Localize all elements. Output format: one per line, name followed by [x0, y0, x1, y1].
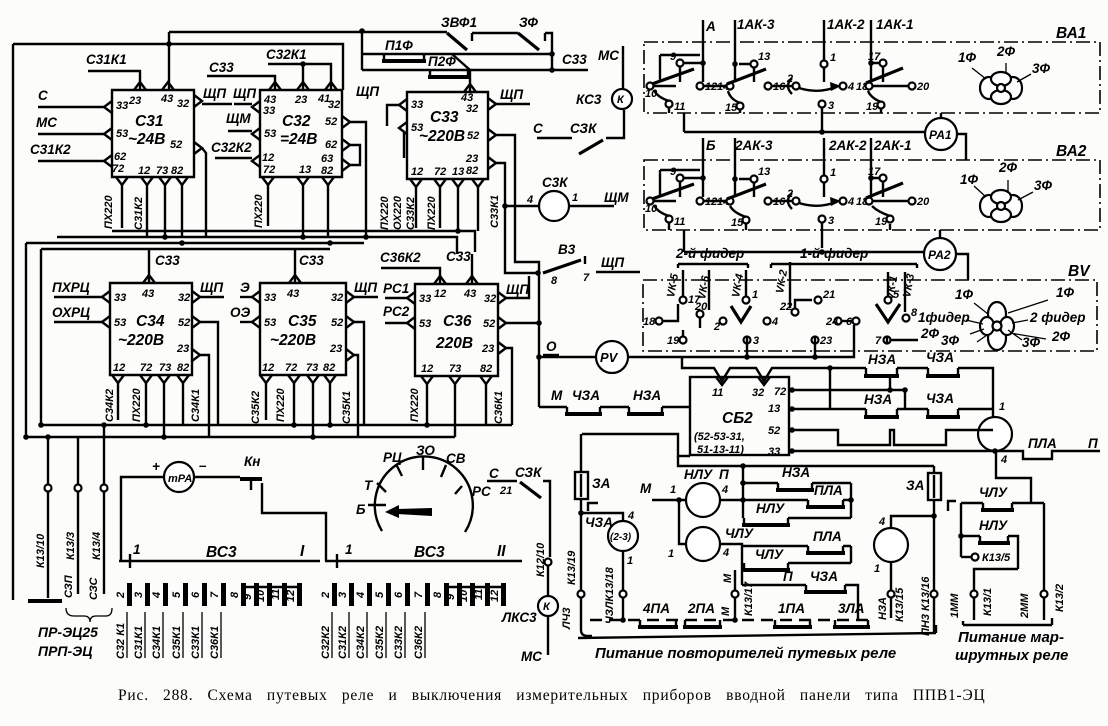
wire x539 down	[538, 273, 540, 359]
svg-text:23: 23	[128, 95, 141, 107]
svg-text:10: 10	[255, 589, 267, 602]
wires BV	[663, 304, 678, 321]
svg-text:8: 8	[551, 275, 558, 287]
svg-text:ПХ220: ПХ220	[131, 388, 143, 422]
svg-text:32: 32	[466, 103, 478, 115]
terminal 3	[819, 101, 826, 108]
svg-text:5: 5	[374, 591, 386, 598]
svg-text:ЩМ: ЩМ	[604, 190, 629, 205]
svg-text:2Ф: 2Ф	[1051, 329, 1071, 344]
svg-text:2Ф: 2Ф	[996, 44, 1016, 59]
gauge arc	[356, 443, 491, 532]
svg-text:13: 13	[768, 403, 780, 415]
svg-text:220В: 220В	[435, 335, 473, 352]
svg-text:НЗА: НЗА	[782, 465, 810, 480]
svg-text:4ПА: 4ПА	[642, 601, 670, 616]
svg-text:3: 3	[133, 592, 145, 598]
svg-text:52: 52	[768, 425, 780, 437]
bottom bracket	[578, 625, 936, 638]
terminal 24	[835, 318, 842, 325]
svg-text:К13/5: К13/5	[982, 552, 1011, 564]
svg-text:2 фидер: 2 фидер	[1029, 310, 1086, 325]
panel ВА1 frame	[644, 42, 1100, 113]
svg-text:53: 53	[264, 317, 276, 329]
svg-text:43: 43	[463, 288, 476, 300]
wire C36 pin52 right to x539	[506, 322, 539, 324]
svg-text:17: 17	[868, 166, 881, 178]
svg-text:НЛУ: НЛУ	[684, 467, 713, 482]
svg-text:12: 12	[421, 363, 433, 375]
svg-text:3Ф: 3Ф	[941, 333, 960, 348]
interconnect verticals on pin72 rail	[890, 376, 905, 409]
svg-text:1: 1	[572, 192, 578, 204]
wire stems into ВА2	[703, 138, 871, 197]
svg-text:4: 4	[526, 194, 533, 206]
svg-text:ВV: ВV	[1068, 263, 1091, 280]
wire К13/10 drop	[47, 437, 49, 484]
svg-text:16: 16	[773, 196, 786, 208]
svg-text:43: 43	[141, 288, 154, 300]
svg-text:1: 1	[999, 401, 1005, 413]
svg-text:С33К2: С33К2	[393, 626, 405, 659]
svg-text:С3К: С3К	[542, 175, 569, 190]
svg-text:1АК-2: 1АК-2	[827, 17, 865, 32]
label С33 above C32	[207, 60, 275, 90]
svg-text:ЧЗЛК13/18: ЧЗЛК13/18	[604, 566, 616, 624]
levers ВА2	[652, 184, 694, 199]
svg-text:82: 82	[480, 363, 492, 375]
svg-text:52: 52	[170, 139, 182, 151]
relay C34	[102, 275, 200, 383]
wire C36 pin23 down-right	[506, 348, 512, 425]
svg-text:ЗФ: ЗФ	[519, 15, 538, 30]
wire bus y231	[112, 231, 475, 252]
svg-text:С35К1: С35К1	[171, 626, 183, 659]
svg-text:53: 53	[419, 318, 431, 330]
svg-text:С31К2: С31К2	[30, 142, 71, 157]
svg-text:12: 12	[489, 590, 501, 602]
svg-text:Б: Б	[356, 502, 366, 517]
svg-text:ПХ220: ПХ220	[379, 196, 391, 230]
svg-text:72: 72	[774, 386, 786, 398]
svg-text:13: 13	[758, 166, 770, 178]
svg-text:ЩП: ЩП	[203, 86, 226, 101]
svg-text:1-й фидер: 1-й фидер	[800, 246, 868, 261]
svg-text:23: 23	[176, 343, 189, 355]
svg-text:1АК-3: 1АК-3	[737, 17, 775, 32]
svg-text:ПХ220: ПХ220	[253, 194, 265, 228]
wire C34 bottom pins	[117, 383, 119, 420]
svg-text:С36К2: С36К2	[380, 250, 421, 265]
svg-text:4: 4	[722, 547, 729, 559]
terminal 3	[744, 337, 751, 344]
arrow 2-4	[788, 78, 836, 94]
svg-text:С32 К1: С32 К1	[115, 623, 127, 659]
svg-text:СЗК: СЗК	[570, 121, 598, 136]
svg-text:В3: В3	[558, 242, 576, 257]
wire М drop	[538, 357, 540, 407]
relay ЧЛУ	[679, 500, 686, 544]
terminal 6	[853, 318, 860, 325]
relay C31	[104, 82, 202, 185]
svg-text:1: 1	[874, 563, 880, 575]
svg-text:1: 1	[668, 548, 674, 560]
svg-text:К13/10: К13/10	[35, 533, 47, 568]
svg-text:52: 52	[178, 317, 190, 329]
wire РУ to BV	[628, 325, 854, 357]
svg-text:15: 15	[725, 102, 738, 114]
svg-text:2: 2	[115, 592, 127, 599]
svg-text:1: 1	[627, 555, 633, 567]
svg-text:5: 5	[893, 289, 900, 301]
terminal 18	[656, 318, 663, 325]
svg-text:32: 32	[178, 292, 190, 304]
svg-text:53: 53	[114, 317, 126, 329]
svg-text:М: М	[640, 481, 652, 496]
svg-text:73: 73	[449, 363, 461, 375]
left vertical	[960, 503, 962, 557]
svg-text:(2-3): (2-3)	[610, 532, 632, 543]
svg-text:32: 32	[331, 292, 343, 304]
svg-text:7: 7	[875, 335, 882, 347]
svg-text:2Ф: 2Ф	[920, 326, 940, 341]
svg-text:12: 12	[434, 288, 446, 300]
terminal 22	[792, 309, 799, 316]
wire bus y425	[41, 424, 512, 426]
wire ВС3 II	[325, 560, 522, 562]
svg-text:9: 9	[670, 166, 677, 178]
terminal 19	[878, 102, 885, 109]
svg-text:23: 23	[481, 343, 494, 355]
svg-text:4: 4	[847, 196, 854, 208]
svg-text:НЗА: НЗА	[877, 597, 889, 620]
wire М row into СБ2	[539, 406, 690, 408]
needle	[397, 508, 432, 516]
svg-text:ЩП: ЩП	[500, 87, 523, 102]
svg-text:С32К2: С32К2	[211, 140, 252, 155]
svg-text:=24В: =24В	[280, 131, 318, 148]
node junction dot x362	[359, 28, 365, 34]
svg-text:ЛЧ3: ЛЧ3	[561, 608, 573, 630]
svg-text:82: 82	[323, 362, 335, 374]
wire to 1ММ	[974, 569, 1018, 590]
contact П1Ф	[362, 38, 552, 70]
svg-text:К13/17: К13/17	[743, 581, 755, 616]
wire П2Ф rail y70	[362, 69, 588, 71]
svg-text:ЧЗА: ЧЗА	[926, 391, 954, 406]
switch ЗВФ1	[441, 15, 518, 50]
svg-text:VК-5: VК-5	[665, 272, 681, 298]
svg-text:7: 7	[209, 591, 221, 598]
svg-text:II: II	[497, 543, 506, 560]
wire C34 pin52 down	[200, 322, 218, 425]
svg-text:13: 13	[452, 166, 464, 178]
wire drop to C33 top pin	[469, 70, 471, 92]
svg-text:10: 10	[458, 589, 470, 602]
svg-text:С31К1: С31К1	[133, 626, 145, 659]
svg-text:М: М	[551, 388, 563, 403]
svg-text:72: 72	[434, 166, 446, 178]
svg-text:2ПА: 2ПА	[687, 601, 715, 616]
wire left frame vertical	[12, 44, 14, 600]
svg-text:ЗА: ЗА	[592, 476, 610, 491]
terminal 19	[680, 337, 687, 344]
wires СБ2 right pins	[789, 387, 795, 393]
svg-text:17: 17	[868, 51, 881, 63]
svg-text:5: 5	[171, 591, 183, 598]
svg-text:МС: МС	[598, 48, 619, 63]
wire meter loop left	[121, 477, 164, 561]
svg-text:11: 11	[712, 387, 723, 399]
wire C33 bottom stubs	[416, 187, 440, 228]
contact НЗА	[629, 407, 662, 413]
svg-text:2-й фидер: 2-й фидер	[675, 246, 744, 261]
terminal 15	[737, 103, 744, 110]
wire C36 bottom pins	[427, 384, 486, 437]
svg-text:82: 82	[177, 362, 189, 374]
svg-text:НЛУ: НЛУ	[979, 518, 1008, 533]
svg-text:–: –	[199, 458, 207, 473]
svg-text:П2Ф: П2Ф	[428, 54, 456, 69]
wire vertical x362	[361, 31, 363, 70]
svg-text:2: 2	[713, 321, 720, 333]
terminal 16	[765, 83, 772, 90]
svg-text:РС2: РС2	[383, 304, 410, 319]
svg-text:М: М	[722, 573, 734, 583]
svg-text:3Ф: 3Ф	[1034, 178, 1053, 193]
svg-text:73: 73	[156, 165, 168, 177]
ground bar СЗП	[28, 599, 62, 603]
svg-text:~220В: ~220В	[270, 332, 316, 349]
svg-text:РЦ: РЦ	[383, 450, 402, 465]
svg-text:52: 52	[483, 318, 495, 330]
svg-text:VК-2: VК-2	[774, 269, 790, 295]
svg-text:8: 8	[432, 591, 444, 598]
wire C32 bottom stubs	[267, 185, 269, 226]
fan ВА2	[960, 160, 1053, 222]
terminal 8	[903, 315, 910, 322]
svg-text:32: 32	[752, 387, 764, 399]
svg-text:1: 1	[830, 167, 836, 179]
svg-text:С33К2: С33К2	[405, 197, 417, 230]
svg-text:33: 33	[116, 100, 128, 112]
svg-text:С33: С33	[209, 60, 234, 75]
svg-text:3ЛА: 3ЛА	[838, 601, 865, 616]
svg-text:С33: С33	[299, 253, 324, 268]
svg-text:С34: С34	[136, 313, 165, 330]
svg-text:15: 15	[731, 217, 744, 229]
svg-text:9: 9	[242, 593, 254, 600]
svg-text:МС: МС	[36, 115, 57, 130]
wire hooks left of C33	[387, 105, 399, 126]
svg-text:ЧЛУ: ЧЛУ	[755, 547, 784, 562]
svg-text:73: 73	[159, 362, 171, 374]
svg-text:ЩП: ЩП	[354, 280, 377, 295]
svg-text:82: 82	[466, 165, 478, 177]
levers ВА1	[652, 69, 694, 84]
svg-text:П: П	[719, 467, 729, 482]
wire meter to button	[194, 476, 240, 478]
svg-text:ЗА: ЗА	[906, 478, 924, 493]
node dots on buses	[162, 234, 168, 240]
svg-text:ЗО: ЗО	[416, 443, 435, 458]
terminal 17	[880, 175, 887, 182]
svg-text:4: 4	[847, 81, 854, 93]
terminal 17	[880, 60, 887, 67]
panel BV frame	[643, 280, 1097, 351]
svg-text:53: 53	[264, 128, 276, 140]
terminal 4	[840, 198, 847, 205]
svg-text:КС3: КС3	[576, 92, 602, 107]
svg-text:К13/15: К13/15	[894, 587, 906, 622]
svg-text:7: 7	[583, 272, 590, 284]
terminal 20	[909, 198, 916, 205]
svg-text:П: П	[783, 569, 793, 584]
svg-text:62: 62	[114, 151, 126, 163]
svg-text:12: 12	[262, 152, 274, 164]
svg-text:Т: Т	[364, 478, 374, 493]
svg-text:1Ф: 1Ф	[958, 50, 977, 65]
svg-text:3Ф: 3Ф	[1022, 335, 1041, 350]
svg-text:2Ф: 2Ф	[998, 160, 1018, 175]
svg-text:13: 13	[758, 51, 770, 63]
svg-text:3: 3	[828, 100, 834, 112]
svg-text:НЛУ: НЛУ	[756, 501, 785, 516]
svg-text:18: 18	[643, 316, 656, 328]
svg-text:С32К2: С32К2	[320, 626, 332, 659]
terminal 9	[677, 175, 684, 182]
terminal 4	[840, 83, 847, 90]
wire top bus y31	[169, 31, 447, 33]
svg-text:12: 12	[705, 81, 717, 93]
terminal 13	[751, 61, 758, 68]
svg-text:С36К2: С36К2	[413, 626, 425, 659]
arrow 2-4 ВА2	[788, 193, 836, 209]
terminal 17	[680, 297, 687, 304]
svg-text:ПРП-ЭЦ: ПРП-ЭЦ	[38, 643, 92, 659]
svg-text:62: 62	[325, 139, 337, 151]
wire П from ПЛА	[992, 448, 998, 454]
svg-text:Рис. 288. Схема путевых реле и: Рис. 288. Схема путевых реле и выключени…	[118, 687, 986, 704]
wires into СБ2 top (bus dips into notches)	[682, 357, 830, 381]
svg-text:ВС3: ВС3	[206, 544, 237, 561]
switch ЗФ	[518, 15, 552, 70]
wire К13/4 drop	[103, 425, 105, 484]
wire C35 pin23 down	[354, 355, 358, 437]
svg-text:6: 6	[190, 591, 202, 598]
svg-text:НЗА: НЗА	[868, 352, 896, 367]
svg-text:С33: С33	[155, 253, 180, 268]
relay РА1	[925, 118, 957, 150]
М К13/17	[734, 570, 736, 620]
svg-text:ЩП: ЩП	[200, 280, 223, 295]
relay ПЛА	[978, 417, 1012, 451]
К13/5	[961, 556, 971, 558]
svg-text:С34К2: С34К2	[104, 389, 116, 422]
svg-text:~220В: ~220В	[118, 332, 164, 349]
svg-text:С36К1: С36К1	[493, 391, 505, 424]
svg-text:20: 20	[916, 81, 930, 93]
svg-text:2: 2	[320, 592, 332, 599]
relay C33	[399, 84, 496, 187]
svg-text:52: 52	[467, 130, 479, 142]
wire left frame v1	[25, 243, 27, 437]
svg-text:82: 82	[321, 165, 333, 177]
svg-text:3: 3	[828, 215, 834, 227]
terminal 4	[764, 318, 771, 325]
svg-text:53: 53	[116, 128, 128, 140]
block СБ2	[690, 377, 789, 455]
svg-text:12: 12	[705, 196, 717, 208]
svg-text:11: 11	[473, 589, 485, 600]
svg-text:Б: Б	[706, 138, 716, 153]
svg-text:33: 33	[114, 292, 126, 304]
svg-text:19: 19	[875, 216, 888, 228]
svg-text:С34К1: С34К1	[190, 389, 202, 422]
wire ВС3 I	[119, 560, 320, 562]
svg-text:С33К1: С33К1	[190, 626, 202, 659]
terminal 12	[697, 83, 704, 90]
svg-text:С: С	[489, 466, 499, 481]
svg-text:23: 23	[465, 153, 478, 165]
terminal 7	[884, 337, 891, 344]
svg-text:ПЛА: ПЛА	[813, 529, 842, 544]
svg-text:63: 63	[321, 153, 333, 165]
svg-text:ПХРЦ: ПХРЦ	[52, 280, 90, 295]
svg-text:11: 11	[674, 101, 685, 113]
svg-text:ЩМ: ЩМ	[226, 111, 251, 126]
terminal 2	[720, 318, 727, 325]
svg-text:8: 8	[911, 307, 918, 319]
svg-text:52: 52	[325, 116, 337, 128]
svg-text:32: 32	[328, 99, 340, 111]
wire top bus y44	[13, 44, 343, 90]
svg-text:33: 33	[768, 446, 780, 458]
svg-text:3: 3	[753, 335, 759, 347]
svg-text:2АК-1: 2АК-1	[873, 138, 912, 153]
svg-text:О: О	[546, 339, 557, 354]
svg-text:СЗК: СЗК	[515, 465, 543, 480]
right vertical to 2ММ	[1043, 503, 1045, 590]
svg-text:I: I	[300, 543, 305, 560]
terminal 10	[647, 83, 654, 90]
bottom bracket	[963, 618, 1052, 625]
svg-text:3: 3	[337, 592, 349, 598]
terminal 11	[666, 101, 673, 108]
svg-text:ЩП: ЩП	[233, 86, 256, 101]
svg-text:С33: С33	[430, 109, 459, 126]
wire jog from П line	[996, 451, 1031, 503]
svg-text:21: 21	[499, 485, 512, 497]
П rail y466	[678, 456, 934, 466]
svg-text:ЛКС3: ЛКС3	[501, 610, 537, 625]
wires ВА2	[680, 182, 883, 197]
svg-text:72: 72	[285, 362, 297, 374]
svg-text:1: 1	[133, 542, 141, 557]
svg-text:8: 8	[229, 591, 241, 598]
dashed bus	[590, 619, 868, 621]
svg-text:ПН3 К13/16: ПН3 К13/16	[920, 576, 932, 636]
wire loop right of C32	[350, 145, 360, 165]
svg-text:1: 1	[830, 52, 836, 64]
terminal 19	[887, 216, 894, 223]
svg-text:19: 19	[667, 335, 680, 347]
svg-text:СЗП: СЗП	[63, 574, 75, 598]
svg-text:НЗА: НЗА	[864, 392, 892, 407]
svg-text:9: 9	[445, 593, 457, 600]
svg-text:С32К1: С32К1	[266, 47, 307, 62]
svg-text:С31К2: С31К2	[133, 197, 145, 230]
